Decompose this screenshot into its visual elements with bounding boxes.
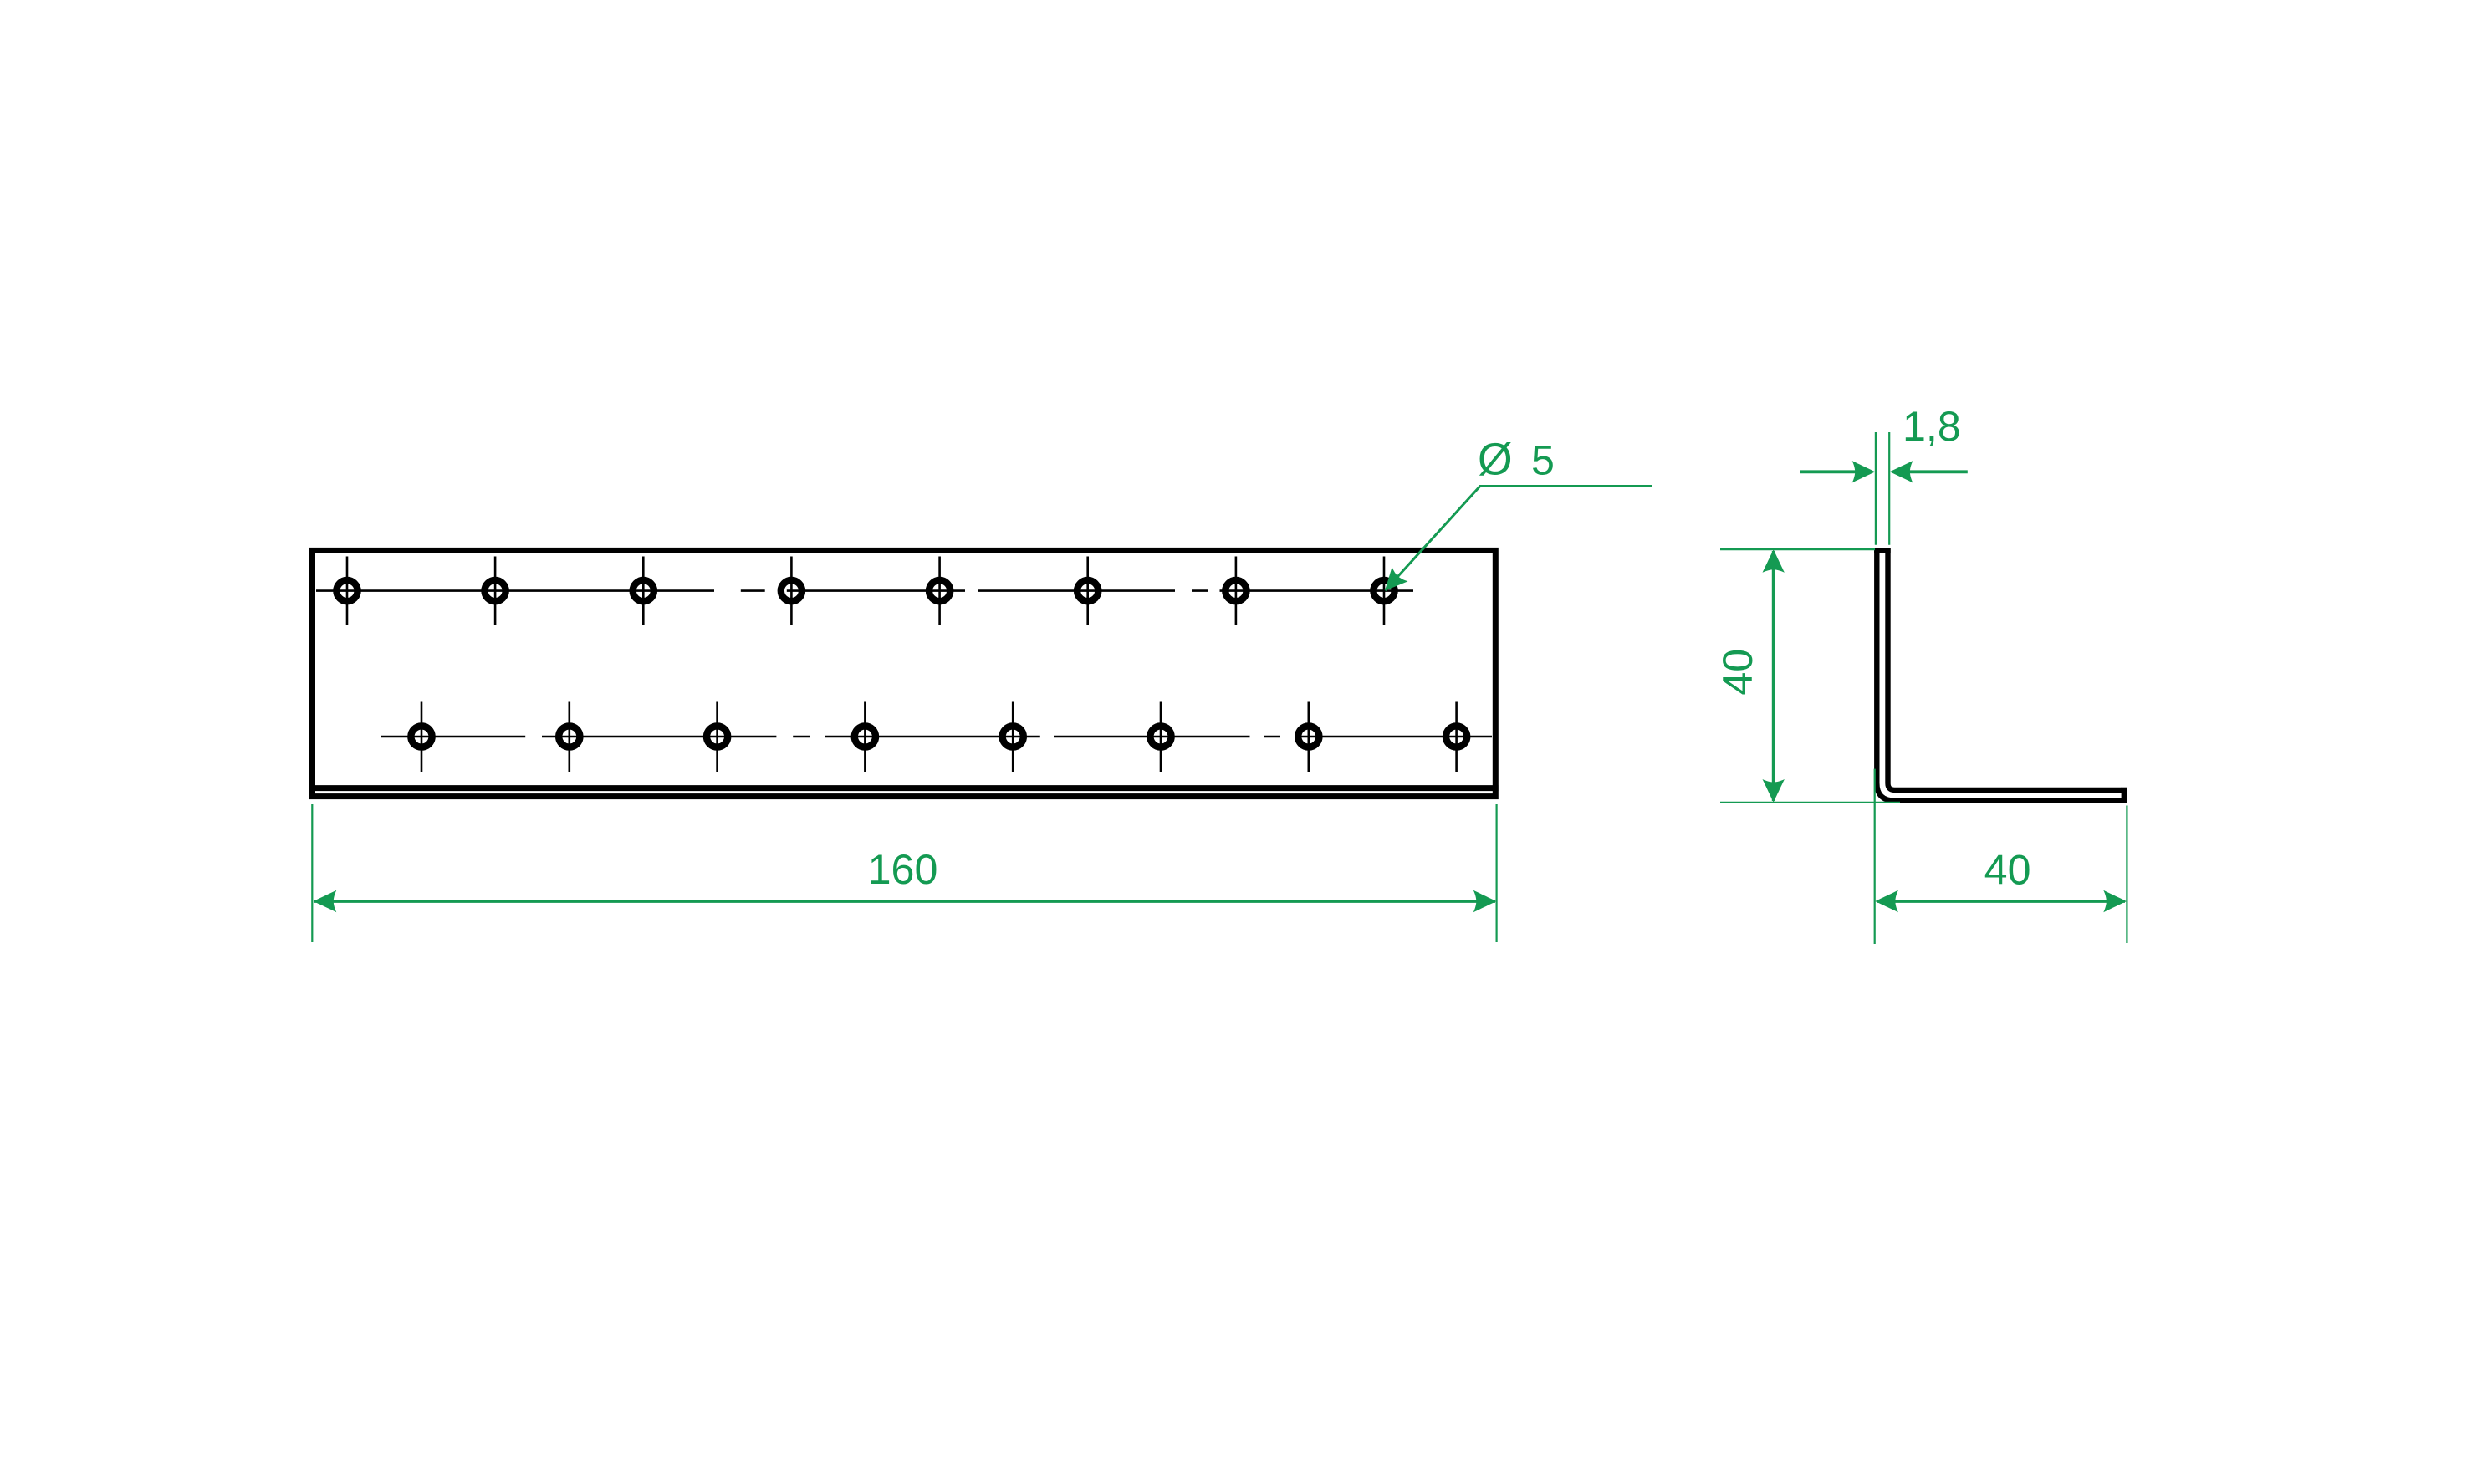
- hole 1 top row with crosshair: [336, 557, 357, 626]
- dimension 160: left arrowhead: [314, 890, 337, 912]
- dimension 1,8: left dimension line tail: [1800, 470, 1857, 473]
- dimension 1,8: right arrowhead pointing left: [1890, 461, 1913, 482]
- dimension 160: right arrowhead: [1473, 890, 1497, 912]
- side view: right end cap of horizontal leg: [2122, 788, 2127, 803]
- dimension 40 horizontal: dimension line: [1877, 900, 2125, 903]
- dimension 40 horizontal: left arrowhead: [1875, 890, 1898, 912]
- dimension 40 horizontal: right arrowhead: [2103, 890, 2127, 912]
- side view: inner contour of L profile: [1888, 548, 2123, 790]
- hole 2 bottom row with crosshair: [559, 702, 580, 773]
- hole 7 top row with crosshair: [1225, 557, 1246, 626]
- side view: outer contour of L profile: [1877, 548, 2125, 800]
- dimension 40 vertical: bottom extension line: [1720, 802, 1900, 803]
- hole 3 bottom row with crosshair: [707, 702, 728, 773]
- dimension 40 horizontal: left extension line: [1874, 769, 1876, 944]
- hole 8 bottom row with crosshair: [1446, 702, 1467, 773]
- dimension 40 vertical: top extension line: [1720, 548, 1875, 550]
- hole 8 top row with crosshair: [1373, 557, 1394, 626]
- dimension 1,8: left extension line: [1875, 432, 1877, 545]
- leader arrowhead at hole: [1377, 567, 1408, 598]
- hole 1 bottom row with crosshair: [411, 702, 432, 773]
- hole 6 bottom row with crosshair: [1150, 702, 1171, 773]
- leader line for hole diameter callout: [1386, 487, 1652, 591]
- hole 4 top row with crosshair: [781, 557, 802, 626]
- svg-text:40: 40: [1984, 847, 2031, 894]
- dimension 160: left extension line: [311, 804, 313, 942]
- hole 7 bottom row with crosshair: [1298, 702, 1319, 773]
- dimension 1,8: right dimension line tail: [1909, 470, 1968, 473]
- hole 3 top row with crosshair: [633, 557, 654, 626]
- hole 4 bottom row with crosshair: [855, 702, 876, 773]
- side view: top end cap of vertical leg: [1874, 548, 1891, 553]
- hole 6 top row with crosshair: [1077, 557, 1098, 626]
- svg-text:40: 40: [1714, 649, 1761, 696]
- centerline, bottom hole row (chain line segments): [381, 736, 1493, 738]
- dimension 160: dimension line: [314, 900, 1495, 903]
- hole 5 top row with crosshair: [929, 557, 950, 626]
- dimension 160: right extension line: [1495, 804, 1497, 942]
- dimension 40 vertical: top arrowhead: [1763, 549, 1785, 573]
- front view: plate outline: [313, 550, 1496, 796]
- dimension 1,8: right extension line: [1888, 432, 1890, 545]
- dimension 1,8: left arrowhead pointing right: [1852, 461, 1876, 482]
- hole 5 bottom row with crosshair: [1003, 702, 1024, 773]
- centerline, top hole row (chain line segments): [316, 589, 1413, 592]
- svg-text:160: 160: [868, 846, 938, 893]
- hole 2 top row with crosshair: [485, 557, 506, 626]
- svg-text:1,8: 1,8: [1903, 403, 1961, 450]
- dimension 40 vertical: dimension line: [1772, 551, 1775, 801]
- dimension 40 vertical: bottom arrowhead: [1763, 779, 1785, 803]
- front view: bend line at bottom of face: [309, 785, 1498, 791]
- dimension 40 horizontal: right extension line: [2126, 806, 2127, 944]
